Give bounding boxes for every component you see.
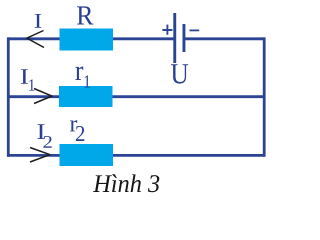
- label I: [35, 14, 42, 28]
- battery minus sign: [190, 29, 200, 31]
- caption Hinh 3: [93, 174, 159, 192]
- label r1 subscript 1: [85, 75, 90, 87]
- resistor r2 (bottom branch): [60, 144, 114, 166]
- current arrow I (pointing left on top rail): [26, 31, 44, 48]
- wire: top rail right segment (battery negative plate to right rail): [184, 37, 265, 40]
- battery U: short negative plate: [183, 24, 186, 52]
- label U: [171, 64, 188, 83]
- resistor r1 (middle branch): [59, 86, 113, 107]
- label r2 main: [70, 120, 77, 131]
- wire: left vertical rail: [7, 37, 10, 156]
- battery U: long positive plate: [173, 13, 176, 63]
- battery plus sign: [162, 25, 172, 35]
- wire: top rail left segment (left rail to battery positive plate): [7, 37, 174, 40]
- resistor R (top branch): [60, 29, 114, 51]
- label R: [77, 6, 93, 24]
- label I2 subscript 2: [43, 136, 51, 148]
- current arrow I1 (pointing right on middle rail): [34, 89, 53, 104]
- wire: right vertical rail: [263, 37, 266, 156]
- label I1 main: [21, 69, 28, 84]
- label I2 main: [37, 124, 44, 139]
- label r2 subscript 2: [76, 126, 84, 141]
- wire: middle rail: [8, 95, 265, 98]
- wire: bottom rail: [7, 154, 265, 157]
- label r1 main: [75, 66, 83, 80]
- label I1 subscript 1: [29, 79, 34, 90]
- current arrow I2 (pointing right on bottom rail): [30, 148, 51, 163]
